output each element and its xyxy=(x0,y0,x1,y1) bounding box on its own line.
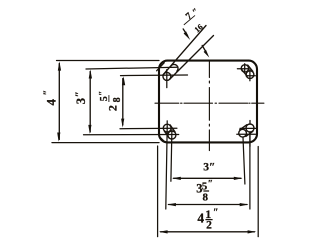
horizontal centerline (dash-dot) xyxy=(155,102,264,104)
vertical centerline (dash-dot) xyxy=(208,60,210,150)
svg-text:″: ″ xyxy=(190,6,200,17)
svg-text:4: 4 xyxy=(197,210,204,225)
dimension line 4-1/2 inch (bottom) xyxy=(161,231,255,233)
bottom-left corner chamfer stroke xyxy=(160,137,166,142)
svg-text:8: 8 xyxy=(202,191,208,203)
dimension line 2-5/8 inch (left) xyxy=(122,79,124,126)
label 7/16 inch slot width (rotated stacked fraction) xyxy=(179,6,210,38)
dimension line 3-5/8 inch (bottom) xyxy=(169,204,248,206)
7/16 slot leader line B xyxy=(170,36,214,80)
extension line, plate bottom edge for 4 inch dim xyxy=(52,142,159,144)
dimension line 3 inch (left) xyxy=(89,72,91,133)
extension line, 3 inch dim bottom through BL hole xyxy=(84,134,179,136)
svg-text:8: 8 xyxy=(112,97,123,102)
arrowhead 7/16 arrow 2 xyxy=(204,50,210,58)
bottom-left slotted bolt hole xyxy=(163,124,176,139)
arrowhead bottom 4-1/2 right xyxy=(248,230,257,233)
top-left slotted bolt hole xyxy=(163,64,178,80)
label 2-5/8 inch (rotated stacked fraction) xyxy=(98,91,123,111)
svg-text:16: 16 xyxy=(193,22,205,34)
arrowhead 7/16 arrow 1 xyxy=(184,31,191,40)
bottom-right hole crosshair ticks xyxy=(237,121,256,147)
extension line, bottom 3-5/8 right xyxy=(249,132,251,209)
extension line, bottom 4-1/2 left xyxy=(157,146,159,237)
arrowhead bottom 3 inch left xyxy=(172,177,181,180)
svg-text:″: ″ xyxy=(74,91,86,97)
top-right hole crosshair ticks xyxy=(237,64,255,81)
svg-text:″: ″ xyxy=(98,91,108,96)
arrowhead 3 inch top xyxy=(89,69,92,78)
dimension line 4 inch (left) xyxy=(58,64,60,140)
arrowhead bottom 3-5/8 left xyxy=(167,203,176,206)
7/16 dim arrow 1 shaft xyxy=(183,29,187,36)
svg-text:3″: 3″ xyxy=(203,162,215,174)
dimension line 3 inch (bottom) xyxy=(174,177,242,179)
bottom-right slotted bolt hole xyxy=(239,124,254,137)
svg-text:″: ″ xyxy=(213,208,219,219)
7/16 dim arrow 2 shaft xyxy=(202,45,206,52)
label 4-1/2 inch bottom (stacked fraction) xyxy=(197,207,218,232)
svg-text:2: 2 xyxy=(106,105,120,111)
svg-text:2: 2 xyxy=(206,220,212,232)
extension line, 2-5/8 dim top through TL hole xyxy=(121,74,188,77)
bottom-left hole vertical centerline tick xyxy=(166,121,168,127)
top-left hole vertical centerline tick xyxy=(166,70,168,88)
extension line, 2-5/8 dim bottom through BL hole xyxy=(120,127,177,129)
svg-text:″: ″ xyxy=(208,179,213,189)
arrowhead 2-5/8 bottom xyxy=(121,119,124,128)
arrowhead bottom 4-1/2 left xyxy=(159,230,168,233)
label 4 inch (rotated) xyxy=(42,90,58,106)
top-right slotted bolt hole xyxy=(241,65,254,79)
svg-text:3: 3 xyxy=(74,98,88,104)
extension line, bottom 3 inch left xyxy=(171,130,172,181)
arrowhead bottom 3-5/8 right xyxy=(240,203,249,206)
caster mounting plate outline xyxy=(159,61,257,143)
extension line, plate top edge for 4 inch dim xyxy=(57,60,160,62)
svg-text:4: 4 xyxy=(44,98,59,105)
arrowhead 3 inch bottom xyxy=(88,125,91,134)
svg-text:″: ″ xyxy=(42,90,53,96)
top-left corner chamfer stroke xyxy=(157,63,165,71)
extension line, bottom 3-5/8 left xyxy=(166,127,167,209)
arrowhead 2-5/8 top xyxy=(122,76,125,85)
arrowhead 4 inch bottom xyxy=(57,133,60,142)
label 3 inch left (rotated) xyxy=(74,91,89,104)
extension line, 3 inch dim top xyxy=(86,67,177,69)
label 3-5/8 inch bottom (stacked fraction) xyxy=(196,179,213,203)
extension line, bottom 4-1/2 right xyxy=(257,147,259,237)
extension line, bottom 3 inch right xyxy=(243,137,245,184)
arrowhead bottom 3 inch right xyxy=(234,177,243,180)
arrowhead 4 inch top xyxy=(58,61,61,70)
7/16 slot leader line A xyxy=(163,26,206,76)
